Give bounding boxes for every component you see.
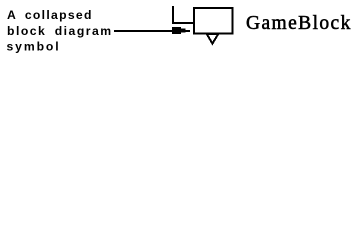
svg-text:block diagram: block diagram bbox=[7, 24, 113, 38]
leader arrow shaft bbox=[114, 30, 174, 32]
enable triangle below block bbox=[207, 34, 218, 44]
svg-text:symbol: symbol bbox=[7, 40, 61, 54]
leader arrowhead bbox=[172, 27, 181, 34]
block body (collapsed block diagram symbol) bbox=[194, 8, 233, 34]
svg-text:GameBlock: GameBlock bbox=[246, 13, 352, 34]
svg-text:A collapsed: A collapsed bbox=[7, 8, 93, 22]
wire into block (top-left L-shaped connection) bbox=[173, 6, 193, 23]
